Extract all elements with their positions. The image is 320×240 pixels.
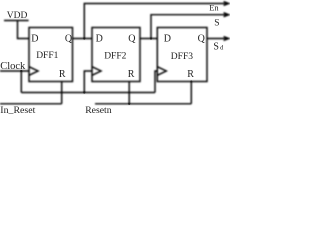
junction node R3 bbox=[190, 81, 192, 83]
wire Q1 to D2 bbox=[73, 38, 93, 40]
svg-text:S: S bbox=[213, 41, 219, 52]
svg-text:D: D bbox=[164, 33, 171, 44]
wire VDD to D of DFF1 bbox=[18, 21, 30, 39]
flip-flop DFF1 box bbox=[29, 28, 73, 82]
svg-text:R: R bbox=[187, 69, 194, 80]
clock triangle DFF2 bbox=[92, 67, 101, 76]
clock triangle DFF1 bbox=[29, 67, 38, 76]
svg-text:Q: Q bbox=[128, 33, 136, 44]
wire Clock input bbox=[0, 70, 29, 72]
junction node clock bus DFF2 bbox=[83, 91, 85, 93]
arrowhead En bbox=[224, 2, 229, 6]
clock triangle DFF3 bbox=[157, 67, 166, 76]
VDD supply symbol bbox=[4, 20, 29, 22]
wire clock riser to DFF2 bbox=[84, 71, 92, 93]
junction node Resetn R2 bbox=[128, 103, 130, 105]
svg-text:VDD: VDD bbox=[7, 11, 28, 21]
junction node clock bbox=[20, 70, 22, 72]
svg-text:En: En bbox=[209, 3, 219, 13]
arrowhead S bbox=[224, 13, 229, 17]
wire S output bbox=[151, 15, 227, 39]
arrowhead Sd bbox=[224, 37, 229, 41]
junction node S tap bbox=[150, 37, 152, 39]
wire Resetn bus bbox=[95, 103, 191, 105]
wire R3 drop bbox=[190, 82, 192, 104]
wire R1 drop bbox=[61, 82, 63, 104]
wire Q2 to D3 bbox=[140, 38, 157, 40]
wire En output bbox=[84, 4, 227, 39]
svg-text:Clock: Clock bbox=[0, 61, 26, 72]
wire R2 drop bbox=[128, 82, 130, 104]
svg-text:S: S bbox=[214, 19, 219, 29]
svg-text:Q: Q bbox=[198, 33, 206, 44]
wire clock distribution bus bbox=[21, 71, 155, 93]
svg-text:D: D bbox=[31, 33, 38, 44]
wire In_Reset input bbox=[0, 103, 62, 105]
wire clock riser to DFF3 bbox=[155, 71, 157, 93]
svg-text:R: R bbox=[59, 69, 66, 80]
svg-text:In_Reset: In_Reset bbox=[0, 105, 35, 116]
svg-text:DFF2: DFF2 bbox=[104, 51, 126, 61]
svg-text:DFF1: DFF1 bbox=[36, 51, 58, 61]
svg-text:Resetn: Resetn bbox=[85, 105, 112, 116]
svg-text:Q: Q bbox=[65, 33, 73, 44]
flip-flop DFF3 box bbox=[157, 28, 207, 82]
svg-text:DFF3: DFF3 bbox=[171, 52, 193, 62]
flip-flop DFF2 box bbox=[92, 28, 140, 82]
svg-text:R: R bbox=[128, 69, 135, 80]
junction node En tap bbox=[83, 37, 85, 39]
wire Q3 to Sd output bbox=[207, 38, 227, 40]
svg-text:D: D bbox=[96, 33, 103, 44]
